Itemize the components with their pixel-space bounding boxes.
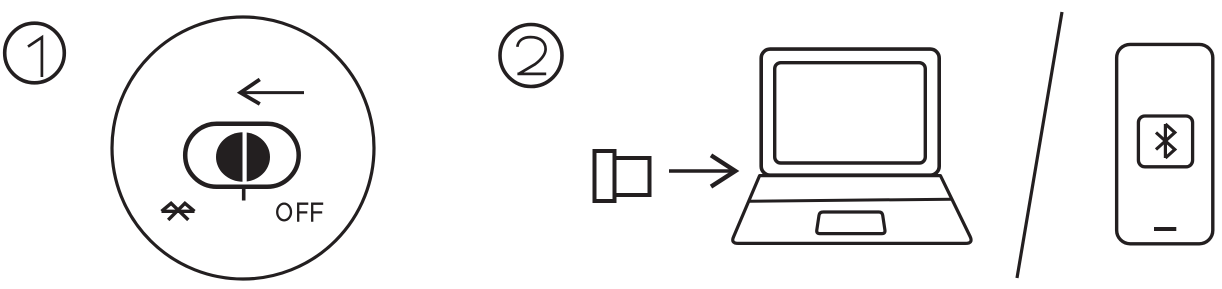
bluetooth rune stroke A <box>1156 124 1175 150</box>
step number 2 glyph <box>517 37 546 74</box>
usb receiver plug <box>595 151 615 201</box>
power switch pill outline <box>185 124 299 187</box>
OFF label letter F1 <box>298 204 308 222</box>
bluetooth-off icon stroke B <box>168 203 194 220</box>
laptop screen <box>775 63 926 163</box>
bluetooth-off icon (rotated rune) stem <box>162 210 195 213</box>
trackpad <box>817 212 885 234</box>
step badge 1 circle <box>5 23 65 83</box>
laptop base <box>733 176 971 244</box>
step number 1 glyph <box>28 37 42 77</box>
OFF label letter O <box>277 204 291 221</box>
arrow left shaft <box>242 91 304 94</box>
bluetooth app square <box>1138 116 1192 167</box>
arrow right shaft <box>669 169 733 172</box>
switch index tick <box>242 189 246 201</box>
switch knob (filled) <box>216 132 270 182</box>
knob divider stripe <box>243 130 247 185</box>
laptop lid <box>761 49 939 175</box>
slash divider <box>1017 12 1062 278</box>
usb receiver body <box>615 158 650 195</box>
phone home dash <box>1154 227 1176 231</box>
bluetooth rune stroke B <box>1156 133 1175 159</box>
bluetooth-off icon stroke A <box>162 203 189 220</box>
OFF label letter F2 <box>312 204 323 222</box>
arrow left head <box>240 79 259 104</box>
phone body <box>1117 44 1213 243</box>
zoom circle (switch detail) <box>112 17 374 279</box>
step badge 2 circle <box>500 25 562 87</box>
bluetooth rune stem <box>1164 124 1167 158</box>
keyboard deck line <box>750 199 952 201</box>
arrow right head <box>711 155 735 186</box>
